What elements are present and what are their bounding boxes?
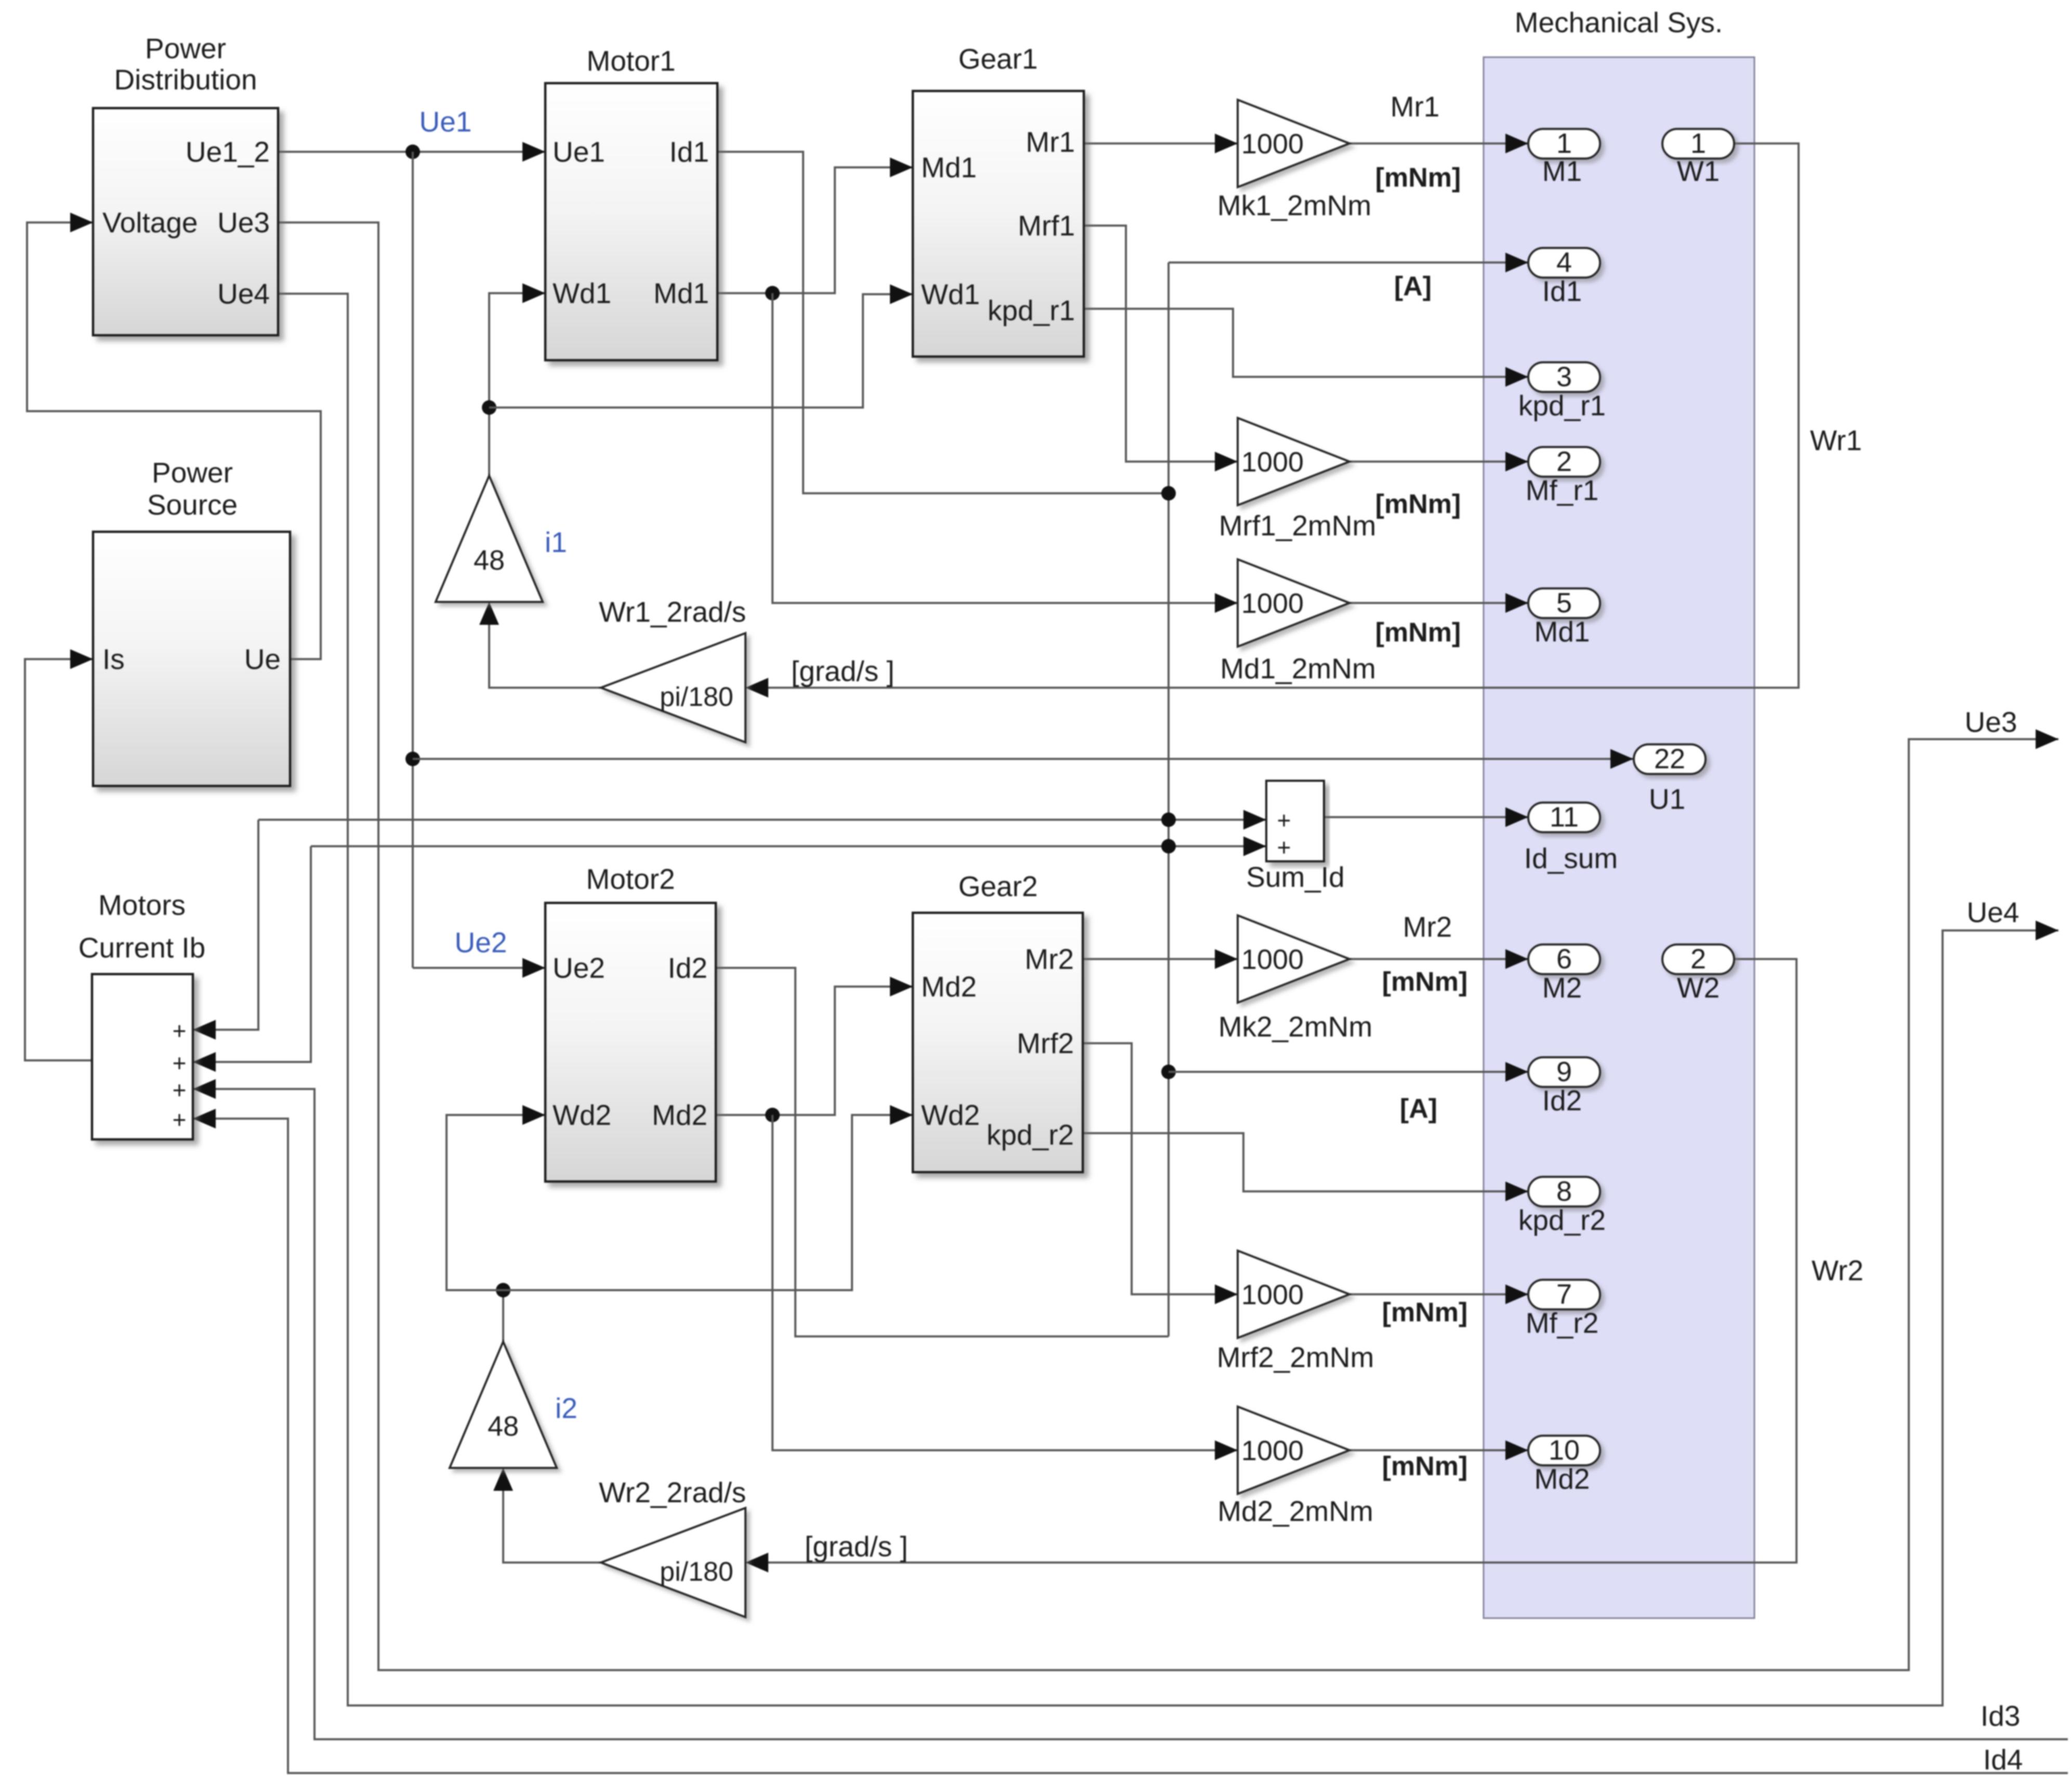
svg-text:Power: Power [152, 456, 233, 489]
svg-text:i2: i2 [555, 1392, 578, 1424]
arrow into port 6 M2 [1505, 949, 1528, 969]
svg-text:Id1: Id1 [670, 136, 709, 168]
gain Md1_2mNm [1238, 559, 1349, 647]
svg-text:+: + [173, 1077, 187, 1104]
arrow into port 10 Md2 [1505, 1440, 1528, 1460]
svg-text:+: + [1277, 807, 1291, 834]
svg-text:Mr1: Mr1 [1026, 126, 1075, 158]
svg-text:2: 2 [1690, 943, 1706, 975]
port 4 Id1 [1528, 248, 1600, 278]
port 1 M1 [1528, 129, 1600, 159]
svg-text:1000: 1000 [1241, 944, 1304, 975]
svg-text:Mrf1: Mrf1 [1018, 209, 1075, 242]
svg-text:Mk2_2mNm: Mk2_2mNm [1218, 1010, 1372, 1043]
arrow into gain Mk1_2mNm [1215, 134, 1238, 153]
svg-text:+: + [173, 1049, 187, 1077]
svg-text:Id3: Id3 [1981, 1700, 2020, 1732]
svg-text:48: 48 [474, 545, 505, 576]
svg-text:Md2_2mNm: Md2_2mNm [1217, 1495, 1373, 1527]
svg-text:Ue2: Ue2 [455, 926, 507, 959]
svg-text:+: + [173, 1017, 187, 1044]
arrow into Gear1.Md1 [890, 157, 913, 177]
svg-text:22: 22 [1654, 743, 1685, 775]
wire Ue1 vertical [412, 152, 414, 968]
svg-text:Ue4: Ue4 [1967, 896, 2019, 928]
svg-text:1000: 1000 [1241, 1435, 1304, 1466]
svg-text:Ue4: Ue4 [217, 278, 270, 310]
junction Id2 port [1161, 1065, 1176, 1079]
subsystem Motor1 [545, 83, 717, 360]
wire Id4 feedback [193, 1119, 2068, 1773]
arrow into Sum_Id plus2 [1243, 836, 1266, 856]
svg-text:W1: W1 [1677, 155, 1720, 187]
svg-text:Ue3: Ue3 [1965, 706, 2017, 738]
svg-text:1: 1 [1690, 128, 1706, 159]
arrow into Motors Current plus4 [193, 1109, 216, 1128]
svg-text:Wd1: Wd1 [553, 277, 611, 309]
region Mechanical Sys. area [1484, 57, 1754, 1618]
subsystem Gear2 [913, 913, 1083, 1172]
junction Ue1 to U1 [405, 752, 420, 766]
svg-text:Ue1: Ue1 [419, 106, 472, 138]
svg-text:Motor2: Motor2 [586, 863, 675, 895]
svg-text:M2: M2 [1542, 972, 1582, 1004]
svg-text:+: + [1277, 834, 1291, 861]
svg-text:48: 48 [488, 1411, 519, 1442]
svg-text:Current Ib: Current Ib [78, 931, 206, 964]
wire Id2 to port Id2 [1169, 1071, 1528, 1073]
arrow into gain i2 [493, 1468, 513, 1491]
subsystem Motor2 [545, 903, 716, 1182]
svg-text:Wd1: Wd1 [921, 278, 980, 310]
svg-text:Ue2: Ue2 [553, 952, 605, 984]
svg-text:[mNm]: [mNm] [1382, 967, 1468, 997]
arrow into port 9 Id2 [1505, 1062, 1528, 1082]
wire Ue2 into Motor2.Ue2 [413, 967, 545, 969]
svg-text:5: 5 [1556, 587, 1572, 619]
svg-text:kpd_r2: kpd_r2 [987, 1119, 1074, 1151]
wire pi/180 out to i1 [489, 624, 601, 688]
wire Wd2 to Motor2.Wd2 [447, 1115, 545, 1290]
gain Mk1_2mNm [1238, 100, 1349, 187]
svg-text:Mr1: Mr1 [1391, 90, 1440, 123]
svg-text:Wd2: Wd2 [921, 1099, 980, 1131]
svg-text:Mrf1_2mNm: Mrf1_2mNm [1219, 509, 1376, 542]
wire Mrf1 to gain Mrf1_2mNm [1084, 226, 1238, 462]
arrow into gain Mrf1_2mNm [1215, 452, 1238, 471]
arrow into Motor1.Wd1 [522, 283, 545, 303]
junction Md2 [765, 1108, 780, 1122]
svg-text:2: 2 [1556, 446, 1572, 477]
svg-text:+: + [173, 1106, 187, 1133]
svg-text:6: 6 [1556, 943, 1572, 975]
arrow into port 8 kpd_r2 [1505, 1182, 1528, 1201]
svg-text:[A]: [A] [1400, 1094, 1437, 1124]
wire pi/180 out to i2 [503, 1490, 601, 1563]
svg-text:kpd_r2: kpd_r2 [1518, 1204, 1606, 1236]
svg-text:1000: 1000 [1241, 588, 1304, 619]
wire Id vertical trunk [1168, 262, 1170, 1336]
wire Mk1 out to port M1 [1349, 142, 1528, 145]
port 2 Mf_r1 [1528, 447, 1600, 477]
wire i1 out to Motor1.Wd1 [489, 293, 545, 476]
svg-text:Motor1: Motor1 [586, 45, 675, 77]
wire Mr1 to gain Mk1_2mNm [1084, 142, 1238, 145]
arrow Ue3 out [2036, 729, 2058, 749]
wire Md1 to gain Md1_2mNm [772, 293, 1238, 603]
svg-text:Id1: Id1 [1542, 275, 1582, 307]
wire Md2 to gain Md2_2mNm [772, 1115, 1238, 1450]
wire Mrf2 out to port Mf_r2 [1349, 1293, 1528, 1295]
svg-text:3: 3 [1556, 361, 1572, 392]
junction Md1 [765, 286, 780, 300]
arrow into port 5 Md1 [1505, 593, 1528, 613]
wire Id3 feedback [193, 1089, 2068, 1739]
svg-text:Md2: Md2 [652, 1099, 707, 1131]
svg-text:Mf_r1: Mf_r1 [1526, 474, 1599, 506]
arrow into Motors Current plus1 [193, 1020, 216, 1040]
svg-text:Mrf2_2mNm: Mrf2_2mNm [1217, 1341, 1374, 1373]
sum block Motors Current Ib [92, 974, 193, 1139]
wire Md2 gain out to port Md2 [1349, 1449, 1528, 1451]
wire Id1 to Motors Current plus1 [193, 820, 258, 1030]
arrow into gain Wr2_2rad_s [745, 1553, 768, 1572]
gain i2 [450, 1342, 557, 1468]
wire Ue1_2 to Motor1.Ue1 [278, 151, 545, 153]
svg-text:7: 7 [1556, 1279, 1572, 1310]
arrow into gain Mk2_2mNm [1215, 949, 1238, 969]
wire W2 to pi/180 gain2 [767, 959, 1796, 1563]
svg-text:i1: i1 [545, 526, 567, 558]
svg-text:U1: U1 [1649, 783, 1685, 815]
arrow into Gear2.Wd2 [890, 1105, 913, 1125]
svg-text:Ue: Ue [244, 643, 281, 675]
svg-text:Md1_2mNm: Md1_2mNm [1220, 652, 1376, 685]
svg-text:Md1: Md1 [921, 151, 977, 183]
arrow into port 22 U1 [1610, 749, 1633, 769]
svg-text:4: 4 [1556, 247, 1572, 278]
arrow into Motor1.Ue1 [522, 142, 545, 162]
arrow into Motors Current plus3 [193, 1079, 216, 1099]
wire Ue3 feedback [278, 222, 2058, 1670]
arrow into gain Md1_2mNm [1215, 593, 1238, 613]
arrow into Motor2.Wd2 [522, 1105, 545, 1125]
wire Id2 to Sum and Ib [311, 845, 1266, 847]
arrow into Gear2.Md2 [890, 977, 913, 996]
wire Ue4 feedback [278, 294, 2058, 1705]
wire Mrf2 to gain Mrf2_2mNm [1083, 1043, 1238, 1294]
gain Mrf1_2mNm [1238, 418, 1349, 505]
wire Id1 to Sum and Ib [258, 819, 1266, 821]
output port 2 W2 [1662, 944, 1734, 974]
gain i1 [436, 476, 543, 602]
wire Id1 to port Id1 [1169, 261, 1528, 264]
arrow Ue4 out [2036, 921, 2058, 940]
svg-text:Ue1: Ue1 [553, 136, 605, 168]
arrow into gain Md2_2mNm [1215, 1440, 1238, 1460]
svg-text:pi/180: pi/180 [660, 1557, 733, 1587]
arrow into port 4 Id1 [1505, 253, 1528, 272]
svg-text:Mf_r2: Mf_r2 [1526, 1307, 1599, 1339]
arrow into Power Distribution Voltage [70, 213, 93, 232]
wire Mr2 to gain Mk2_2mNm [1083, 958, 1238, 960]
svg-text:kpd_r1: kpd_r1 [988, 294, 1075, 326]
subsystem Power Distribution [93, 108, 278, 335]
svg-text:Id2: Id2 [1542, 1084, 1582, 1117]
port 8 kpd_r2 [1528, 1177, 1600, 1206]
arrow into Power Source Is [70, 649, 93, 669]
arrow into gain i1 [479, 602, 499, 625]
port 9 Id2 [1528, 1057, 1600, 1087]
svg-text:Gear1: Gear1 [959, 43, 1038, 75]
svg-text:M1: M1 [1542, 155, 1582, 187]
svg-text:Mr2: Mr2 [1403, 911, 1452, 943]
svg-text:Distribution: Distribution [114, 63, 257, 96]
wire Wd2 to Gear2.Wd2 [503, 1115, 913, 1290]
svg-text:1000: 1000 [1241, 447, 1304, 478]
svg-text:Power: Power [145, 32, 226, 64]
svg-text:[A]: [A] [1394, 271, 1432, 301]
arrow into Gear1.Wd1 [890, 284, 913, 304]
sum block Sum_Id [1266, 781, 1324, 861]
svg-text:[mNm]: [mNm] [1375, 163, 1461, 193]
svg-text:Wr1: Wr1 [1810, 424, 1862, 456]
arrow into Motor2.Ue2 [522, 958, 545, 978]
gain Wr2_2rad_s [601, 1508, 745, 1617]
svg-text:Sum_Id: Sum_Id [1246, 861, 1345, 893]
svg-text:Voltage: Voltage [102, 206, 198, 239]
subsystem Power Source [93, 532, 290, 786]
wire Wd1 to Gear1.Wd1 [489, 294, 913, 408]
svg-text:1000: 1000 [1241, 128, 1304, 160]
svg-text:[grad/s ]: [grad/s ] [805, 1530, 908, 1563]
gain Mk2_2mNm [1238, 915, 1349, 1003]
port 3 kpd_r1 [1528, 362, 1600, 392]
wire Ib sum to Is input [25, 659, 93, 1060]
port 10 Md2 [1528, 1436, 1600, 1465]
svg-text:[mNm]: [mNm] [1382, 1451, 1468, 1481]
gain Md2_2mNm [1238, 1407, 1349, 1494]
svg-text:Mechanical Sys.: Mechanical Sys. [1515, 6, 1723, 38]
arrow into port 7 Mf_r2 [1505, 1284, 1528, 1304]
svg-text:1: 1 [1556, 128, 1572, 159]
svg-text:11: 11 [1550, 802, 1579, 833]
svg-text:Gear2: Gear2 [959, 870, 1038, 902]
gain Wr1_2rad_s [601, 633, 745, 742]
svg-text:9: 9 [1556, 1056, 1572, 1087]
svg-text:Source: Source [147, 489, 238, 521]
arrow into port 3 kpd_r1 [1505, 367, 1528, 387]
wire Id1 from Motor1 [717, 152, 1169, 493]
junction Id1 trunk [1161, 486, 1176, 501]
wire Id2 from Motor2 [716, 968, 1169, 1336]
svg-text:Md1: Md1 [1535, 615, 1590, 648]
arrow into gain Mrf2_2mNm [1215, 1284, 1238, 1304]
arrow into port 2 Mf_r1 [1505, 452, 1528, 471]
junction Wd1 [482, 400, 496, 415]
svg-text:Wr2: Wr2 [1812, 1254, 1864, 1287]
junction Id2 sum [1161, 839, 1176, 854]
arrow into Sum_Id plus1 [1243, 810, 1266, 830]
wire Md1 to Gear1.Md1 [717, 167, 913, 293]
wire Md1 gain out to port Md1 [1349, 602, 1528, 604]
svg-text:[mNm]: [mNm] [1375, 489, 1461, 519]
svg-text:Mr2: Mr2 [1025, 943, 1074, 975]
wire Id2 to Motors Current plus2 [193, 846, 311, 1062]
svg-text:[grad/s ]: [grad/s ] [791, 655, 895, 687]
junction Id1 sum [1161, 812, 1176, 827]
svg-text:Id_sum: Id_sum [1524, 842, 1618, 874]
svg-text:Mk1_2mNm: Mk1_2mNm [1217, 189, 1371, 221]
gain Mrf2_2mNm [1238, 1251, 1349, 1338]
wire Ue to Voltage input [27, 222, 321, 659]
wire Mrf1 out to port Mf_r1 [1349, 461, 1528, 463]
port 11 Id_sum [1528, 803, 1600, 832]
arrow into Motors Current plus2 [193, 1052, 216, 1072]
svg-text:[mNm]: [mNm] [1382, 1297, 1468, 1328]
svg-text:Motors: Motors [98, 889, 186, 921]
port 7 Mf_r2 [1528, 1280, 1600, 1309]
svg-text:Ue3: Ue3 [217, 206, 270, 239]
svg-text:10: 10 [1549, 1435, 1580, 1466]
wire kpd_r1 to port kpd_r1 [1084, 309, 1528, 377]
wire Mk2 out to port M2 [1349, 958, 1528, 960]
svg-text:Md2: Md2 [1535, 1463, 1590, 1495]
arrow into port 1 M1 [1505, 134, 1528, 153]
svg-text:Wr2_2rad/s: Wr2_2rad/s [599, 1476, 746, 1508]
arrow into port 11 Id_sum [1505, 807, 1528, 827]
port 5 Md1 [1528, 588, 1600, 618]
arrow into gain Wr1_2rad_s [745, 678, 768, 698]
subsystem Gear1 [913, 91, 1084, 357]
svg-text:8: 8 [1556, 1176, 1572, 1207]
wire i2 out [502, 1290, 504, 1342]
svg-text:Wd2: Wd2 [553, 1099, 611, 1131]
wire Ue1 to port U1 [413, 758, 1633, 760]
wire Sum_Id out to port Id_sum [1324, 816, 1528, 818]
svg-text:pi/180: pi/180 [660, 682, 733, 712]
svg-text:kpd_r1: kpd_r1 [1518, 389, 1606, 422]
wire W1 to pi/180 gain1 [767, 143, 1799, 688]
output port 1 W1 [1662, 129, 1734, 159]
svg-text:1000: 1000 [1241, 1279, 1304, 1310]
svg-text:Wr1_2rad/s: Wr1_2rad/s [599, 596, 746, 628]
svg-text:W2: W2 [1677, 972, 1720, 1004]
svg-text:Ue1_2: Ue1_2 [186, 136, 270, 168]
svg-text:Id2: Id2 [668, 952, 707, 984]
port 22 U1 [1634, 744, 1706, 774]
junction Ue1 top [405, 145, 420, 159]
svg-text:Md2: Md2 [921, 970, 977, 1003]
wire kpd_r2 to port kpd_r2 [1083, 1133, 1528, 1191]
svg-text:[mNm]: [mNm] [1375, 618, 1461, 648]
junction Wd2 [496, 1283, 510, 1297]
wire Md2 to Gear2.Md2 [716, 987, 913, 1115]
svg-text:Mrf2: Mrf2 [1017, 1027, 1074, 1059]
svg-text:Md1: Md1 [653, 277, 709, 309]
svg-text:Is: Is [102, 643, 125, 675]
svg-text:Id4: Id4 [1983, 1743, 2023, 1776]
port 6 M2 [1528, 944, 1600, 974]
